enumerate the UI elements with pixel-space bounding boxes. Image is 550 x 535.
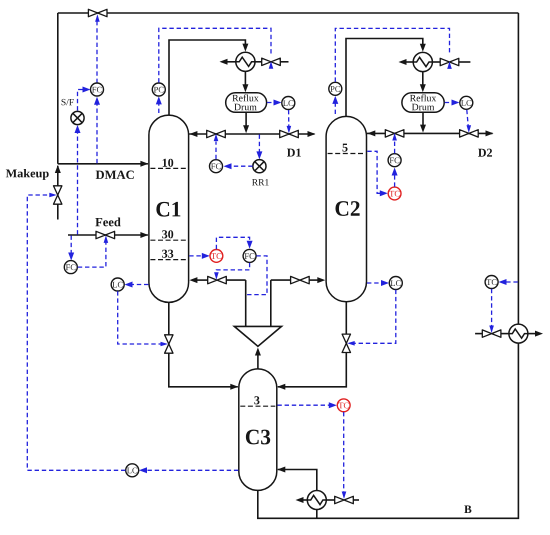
wire C3 overhead riser	[257, 350, 259, 369]
tray 33 line C1	[150, 259, 187, 261]
wire valve to C2	[309, 279, 322, 281]
signal feed measurement to FC feed	[70, 236, 72, 258]
arrow coolant out right (cooler)	[535, 331, 543, 337]
arrow into reboiler steam valve	[342, 492, 347, 500]
arrow into reflux drum 1	[242, 84, 248, 92]
label D2	[478, 149, 492, 157]
valve C1 bottoms (vertical)	[165, 335, 173, 353]
arrow DMAC into C1	[140, 161, 148, 167]
arrow vapour into condenser 1	[242, 44, 248, 52]
node DMAC junction / makeup arrow	[55, 165, 61, 173]
wire right vapour return to valve	[271, 279, 291, 281]
signal RR1 to FC reflux	[227, 165, 253, 167]
arrow into feed valve	[104, 235, 109, 243]
valve cooler coolant	[482, 330, 501, 337]
signal FC top output to recycle valve	[96, 21, 98, 84]
arrow reflux into C2	[367, 130, 375, 136]
signal LC C3 to makeup valve	[27, 195, 125, 470]
label Reflux Drum 1	[232, 94, 258, 101]
signal tray 5 temperature tap	[367, 151, 385, 193]
signal FC reflux to reflux valve	[215, 142, 217, 160]
arrow vapour into C1 side	[189, 277, 197, 283]
controller LC C1 sump	[111, 278, 124, 291]
wire cooler coolant outlet	[528, 333, 540, 335]
arrow into D1 valve	[287, 126, 292, 133]
condenser 2 (heat exchanger)	[413, 52, 432, 71]
arrow feed into C1	[140, 232, 148, 238]
tray 10 line C1	[150, 167, 187, 169]
arrow into makeup valve	[49, 193, 57, 198]
controller TC C2 (red)	[388, 187, 401, 200]
arrow into TC recycle	[499, 279, 507, 285]
wire condenser 1 to reflux drum 1	[244, 71, 246, 85]
label D1	[287, 149, 301, 157]
arrow coolant out left (condenser 1)	[220, 59, 228, 65]
controller FC reflux C2	[388, 154, 401, 167]
signal DMAC flow measurement to FC	[96, 99, 98, 163]
arrow into reflux valve C1	[214, 134, 219, 142]
label S/F ratio	[62, 99, 74, 105]
signal recycle line temperature tap	[502, 281, 518, 283]
cooler on recycle line (heat exchanger)	[509, 324, 528, 343]
wire condenser 1 to coolant valve	[255, 61, 262, 63]
label C2	[336, 201, 360, 216]
arrow into TC C3	[329, 402, 337, 408]
signal C2 sump level tap	[367, 282, 386, 284]
signal feed flow measurement to multiplier	[77, 128, 79, 235]
arrow into cooler valve	[489, 326, 494, 334]
controller TC C1 (red)	[210, 250, 223, 263]
arrow coolant out left (condenser 2)	[399, 59, 407, 65]
signal LC to D1 valve	[288, 110, 290, 127]
tray 3 line C3	[240, 405, 275, 407]
valve vapour return to C2	[291, 276, 310, 283]
wire feed line	[68, 234, 148, 236]
tray 5 line C2	[328, 153, 365, 155]
signal drum 1 level tap to LC	[267, 102, 278, 104]
wire makeup stub	[57, 166, 59, 220]
arrow reflux into C1	[189, 131, 197, 137]
controller TC recycle cooler	[485, 276, 498, 289]
valve condenser 1 coolant	[262, 58, 281, 65]
wire recycle riser above cooler	[517, 13, 519, 324]
arrow into FC feed	[68, 253, 74, 261]
arrow C2 bottoms into C3	[277, 384, 285, 390]
valve C2 bottoms (vertical)	[342, 334, 350, 352]
wire C1 bottoms line	[169, 302, 238, 386]
wire condenser 2 coolant outlet	[402, 61, 414, 63]
arrow into PC C2	[332, 96, 338, 104]
wire drum 1 outlet	[245, 112, 247, 128]
arrow PC signal into condenser 1 valve	[269, 61, 274, 68]
valve reflux C2	[385, 130, 404, 137]
valve feed	[96, 231, 115, 238]
wire drum 2 outlet	[422, 112, 424, 127]
signal tray 33 temperature tap	[189, 255, 207, 257]
controller FC reflux C1	[210, 160, 223, 173]
multiplier S/F (ratio)	[71, 111, 84, 124]
wire coolant inlet stub (condenser 1)	[280, 61, 289, 63]
label C3	[246, 430, 270, 445]
wire condenser 2 to coolant valve	[432, 61, 440, 63]
controller LC drum 2	[460, 96, 473, 109]
arrow into LC drum 1	[274, 100, 282, 106]
wire left vapour return riser	[245, 280, 247, 328]
arrow PC signal into condenser 2 valve	[447, 61, 452, 69]
arrow into C1 bottoms valve	[161, 342, 169, 347]
valve reflux C1	[207, 130, 226, 137]
splitter funnel	[234, 326, 281, 346]
wire distillate header 1	[189, 133, 314, 135]
reflux drum 2	[402, 93, 444, 113]
signal drum 2 level tap to LC	[445, 102, 457, 104]
arrow drum 1 outlet down	[243, 125, 249, 133]
signal FC flow tap on left riser	[247, 256, 268, 295]
wire coolant inlet stub (condenser 2)	[459, 61, 471, 63]
arrow into D2 valve	[467, 125, 472, 133]
wire condenser 1 coolant outlet	[223, 61, 236, 63]
label Reflux Drum 2	[410, 94, 436, 101]
wire reboiler steam outlet	[299, 499, 307, 501]
arrow TC output into FC C2	[392, 168, 398, 176]
arrow reboiler return into C3	[277, 467, 285, 473]
wire valve to C1	[192, 279, 208, 281]
arrow into reflux valve C2	[392, 133, 397, 141]
arrow into reflux drum 2	[420, 84, 426, 92]
controller TC C3 (red)	[337, 399, 350, 412]
arrow into vapour valve C1	[214, 272, 219, 280]
signal FC feed output to feed valve	[78, 243, 106, 268]
arrow C1 bottoms into C3	[230, 384, 238, 390]
label Makeup	[6, 169, 49, 180]
signal PC C2 to condenser valve	[335, 28, 449, 81]
arrow vapour into condenser 2	[420, 44, 426, 52]
arrow vapour into C2 side	[317, 277, 325, 283]
column C1 vessel	[149, 115, 189, 302]
arrow into RR1	[256, 151, 262, 159]
valve vapour return to C1	[208, 276, 227, 283]
arrow drum 2 outlet down	[420, 125, 426, 133]
valve makeup (vertical)	[54, 186, 62, 204]
condenser 1 (heat exchanger)	[236, 52, 255, 71]
signal TC to cooler valve	[491, 289, 493, 326]
signal LC to C2 bottoms valve	[355, 290, 396, 344]
valve reboiler steam	[335, 496, 354, 503]
arrow into LC C3 sump	[139, 467, 147, 473]
wire left recycle downcomer	[57, 13, 59, 164]
wire steam inlet stub (reboiler)	[353, 499, 359, 501]
arrow into PC C1	[156, 96, 162, 104]
signal PC C1 to condenser valve	[159, 28, 271, 82]
label B	[464, 505, 471, 513]
signal TC to reboiler steam valve	[343, 412, 345, 493]
wire distillate header 2	[367, 132, 493, 134]
signal C3 sump level tap	[142, 469, 238, 471]
valve condenser 2 coolant	[440, 58, 459, 65]
signal tray 3 temperature tap	[277, 404, 333, 406]
controller LC drum 1	[282, 97, 295, 110]
arrow C3 vapour up into splitter	[255, 348, 261, 356]
wire top recycle line	[58, 12, 519, 14]
wire reboiler to steam valve	[326, 499, 335, 501]
label C1	[156, 202, 180, 217]
wire condenser 2 to reflux drum 2	[422, 72, 424, 86]
arrow into TC C1 bottom	[202, 253, 210, 259]
controller LC C2 sump	[389, 277, 402, 290]
signal FC output to vapour valve C1	[216, 263, 249, 273]
controller PC C2	[329, 82, 342, 95]
controller PC C1	[152, 83, 165, 96]
signal TC to FC vapour C1	[216, 237, 249, 249]
signal C1 sump level tap	[128, 284, 149, 286]
label tray 33	[162, 250, 173, 258]
label DMAC	[96, 171, 134, 179]
signal LC to D2 valve	[467, 110, 468, 126]
arrow RR1 output into FC	[224, 163, 232, 169]
wire right vapour return riser	[270, 280, 272, 328]
arrow steam out left (reboiler)	[296, 497, 304, 503]
wire cooler coolant inlet stub	[475, 333, 483, 335]
wire C2 bottoms line	[278, 302, 347, 387]
arrow D2 product out	[486, 130, 494, 136]
wire DMAC line to C1	[58, 163, 148, 165]
wire left vapour return to valve	[226, 279, 246, 281]
column C2 vessel	[326, 116, 366, 301]
multiplier RR1	[253, 160, 266, 173]
arrow TC output into FC vapour	[247, 241, 253, 249]
arrow multiplier output into FC	[83, 87, 91, 93]
wire C1 vapour line	[169, 40, 245, 115]
wire C2 vapour line	[346, 39, 423, 117]
controller FC makeup flow	[91, 83, 104, 96]
signal multiplier to FC	[78, 90, 88, 111]
valve on recycle line (top, makeup control valve output of FC)	[88, 9, 107, 16]
signal LC to C1 bottoms valve	[118, 291, 161, 344]
signal TC to FC reflux C2	[394, 171, 396, 187]
controller FC feed flow	[64, 261, 77, 274]
label RR1	[252, 179, 269, 185]
wire cooler valve to cooler	[501, 333, 509, 335]
label Feed	[95, 218, 120, 227]
tray 30 line C1	[150, 239, 187, 241]
label tray 10	[163, 159, 174, 167]
controller FC vapour split C1	[243, 249, 256, 262]
signal C2 pressure tap to PC	[334, 99, 336, 114]
arrow into LC drum 2	[452, 100, 460, 106]
reflux drum 1	[226, 93, 267, 113]
reboiler C3 (heat exchanger)	[307, 491, 326, 510]
controller LC C3 sump	[126, 464, 139, 477]
label tray 5	[342, 144, 347, 152]
label tray 30	[162, 230, 173, 238]
arrow feed measurement into multiplier	[75, 125, 81, 133]
arrow into C2 bottoms valve	[347, 341, 355, 346]
arrow into TC C2	[380, 190, 388, 196]
arrow D1 product out	[308, 131, 316, 137]
arrow measurement into FC	[94, 97, 100, 105]
column C3 vessel	[239, 369, 277, 490]
arrow signal into recycle valve	[95, 14, 100, 22]
label tray 3	[254, 396, 259, 404]
arrow into LC C1 sump	[125, 282, 133, 288]
wire reboiler return to C3	[278, 470, 317, 491]
signal C1 pressure tap to PC	[158, 100, 160, 114]
valve D2 product	[460, 130, 479, 137]
signal distillate tap to RR1	[258, 135, 260, 157]
arrow into LC C2 sump	[381, 280, 389, 286]
wire reboiler to bottoms line	[316, 510, 318, 519]
signal FC to reflux valve C2	[394, 141, 396, 153]
wire C3 bottoms product line	[258, 343, 519, 518]
valve D1 product	[280, 130, 299, 137]
